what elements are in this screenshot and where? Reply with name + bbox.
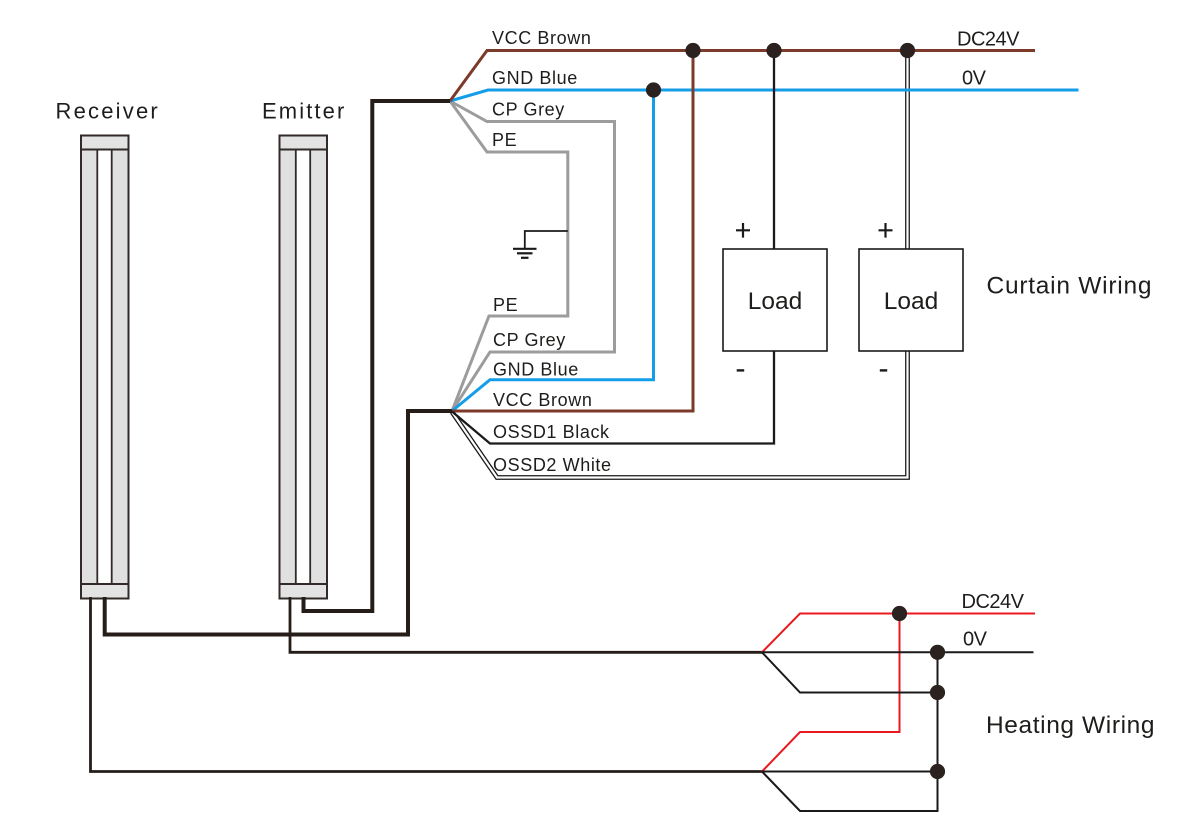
junction heating red bbox=[892, 606, 907, 621]
svg-text:PE: PE bbox=[493, 295, 518, 315]
svg-text:CP Grey: CP Grey bbox=[493, 330, 566, 350]
light curtain receiver bar bbox=[81, 136, 129, 599]
receiver heating cable bbox=[91, 597, 763, 772]
svg-text:VCC Brown: VCC Brown bbox=[492, 28, 591, 48]
svg-text:DC24V: DC24V bbox=[962, 591, 1025, 613]
emitter heating cable bbox=[290, 597, 762, 652]
junction VCC brown return bbox=[685, 43, 700, 58]
svg-text:GND Blue: GND Blue bbox=[493, 360, 579, 380]
svg-text:Curtain Wiring: Curtain Wiring bbox=[987, 273, 1153, 300]
junction heating emitter return bbox=[930, 685, 945, 700]
heating red return wire to receiver cable bbox=[762, 614, 900, 772]
svg-text:0V: 0V bbox=[962, 68, 987, 90]
svg-text:Load: Load bbox=[748, 288, 803, 315]
svg-text:Receiver: Receiver bbox=[56, 99, 160, 124]
wire white load 2 plus to DC24V bbox=[905, 51, 910, 250]
svg-text:VCC Brown: VCC Brown bbox=[493, 390, 592, 410]
plus terminal load 2 bbox=[879, 223, 893, 238]
heating red DC24V wire bbox=[762, 614, 1035, 653]
load box 2 bbox=[859, 249, 963, 351]
wire GND blue return to receiver bbox=[452, 90, 654, 411]
wire GND blue 0V bus bbox=[450, 90, 1079, 101]
emitter main cable bbox=[304, 101, 451, 611]
wire ground tap from PE bbox=[525, 231, 568, 248]
wire OSSD1 black receiver to load 1 minus bbox=[452, 351, 774, 444]
wire OSSD2 white (double line, receiver to load 2 minus) bbox=[452, 351, 908, 478]
wire black load 1 plus to DC24V bbox=[773, 51, 775, 250]
wire VCC brown return to receiver bbox=[452, 51, 693, 412]
light curtain emitter bar bbox=[280, 136, 328, 599]
heating black receiver return wire bbox=[762, 652, 938, 811]
plus terminal load 1 bbox=[736, 223, 750, 238]
junction load 1 on DC24V bbox=[766, 43, 781, 58]
wire CP grey loop emitter to receiver bbox=[450, 101, 615, 411]
svg-text:0V: 0V bbox=[963, 629, 988, 651]
ground bbox=[513, 249, 537, 258]
svg-text:OSSD2 White: OSSD2 White bbox=[493, 455, 612, 475]
minus terminal load 1 bbox=[737, 369, 745, 371]
svg-text:Heating Wiring: Heating Wiring bbox=[986, 712, 1155, 739]
svg-text:OSSD1 Black: OSSD1 Black bbox=[493, 422, 610, 442]
svg-text:GND Blue: GND Blue bbox=[492, 68, 578, 88]
junction load 2 on DC24V bbox=[900, 43, 915, 58]
svg-text:CP Grey: CP Grey bbox=[492, 100, 565, 120]
junction heating receiver bbox=[930, 764, 945, 779]
heating black receiver wire bbox=[762, 771, 938, 773]
minus terminal load 2 bbox=[880, 369, 887, 371]
junction GND blue drop bbox=[646, 82, 661, 97]
heating black 0V wire bbox=[762, 651, 1034, 653]
junction heating 0V bbox=[930, 645, 945, 660]
svg-text:PE: PE bbox=[492, 130, 517, 150]
svg-text:DC24V: DC24V bbox=[957, 29, 1020, 51]
receiver main cable bbox=[105, 411, 452, 635]
load box 1 bbox=[723, 249, 827, 351]
svg-text:Emitter: Emitter bbox=[262, 99, 346, 124]
heating black emitter return wire bbox=[762, 652, 938, 692]
svg-text:Load: Load bbox=[884, 288, 939, 315]
wire PE grey loop emitter to receiver bbox=[450, 101, 568, 411]
wire VCC brown DC24V bus bbox=[450, 51, 1035, 102]
